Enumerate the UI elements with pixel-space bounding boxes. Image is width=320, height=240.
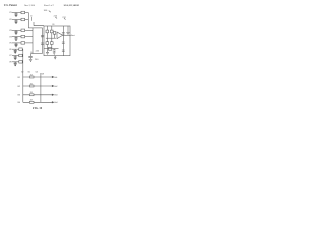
svg-text:V3: V3 [9, 30, 11, 32]
svg-text:US 6,311,145 B1: US 6,311,145 B1 [64, 4, 80, 7]
wire main bus [28, 27, 42, 29]
svg-text:B1: B1 [18, 77, 20, 79]
rung wire Vo4 [23, 101, 52, 103]
input row V7 [9, 54, 23, 59]
svg-text:Vo3: Vo3 [54, 95, 57, 97]
node bus collector [27, 13, 29, 28]
resistor 209 [29, 101, 34, 103]
transistor Q2 [51, 26, 53, 49]
capacitor C31 on inner rail [62, 33, 65, 34]
transistor Q1 [46, 26, 48, 49]
svg-text:B3: B3 [18, 95, 20, 97]
svg-text:206: 206 [30, 83, 33, 85]
ground G5 below box [54, 56, 56, 59]
svg-text:V7: V7 [9, 55, 11, 57]
summing rail [42, 28, 44, 54]
arrow Vo2 [52, 85, 54, 86]
svg-text:V4: V4 [9, 36, 11, 38]
input row V2 [9, 18, 28, 23]
input row V6 [9, 48, 23, 53]
ground G4 [53, 53, 56, 55]
svg-text:Nov. 2, 2004: Nov. 2, 2004 [24, 5, 35, 7]
arrow Vo3 [52, 94, 54, 95]
ground G3 [46, 49, 49, 55]
input row V8 [9, 61, 23, 66]
svg-text:B2: B2 [18, 86, 20, 88]
svg-text:V1: V1 [9, 12, 11, 14]
ground G2 [29, 59, 32, 61]
capacitor C24 [53, 49, 56, 53]
svg-text:Vo2: Vo2 [54, 86, 57, 88]
resistor 204 [29, 76, 34, 78]
rung wire Vo3 [23, 94, 52, 96]
svg-text:V5: V5 [9, 43, 11, 45]
rung wire Vo2 [23, 85, 52, 87]
svg-text:Vout: Vout [71, 34, 75, 37]
input row V1 [9, 11, 28, 16]
wire box bottom rail [44, 48, 59, 50]
wire chain join [46, 37, 56, 39]
input row V5 [9, 42, 33, 47]
svg-text:V6: V6 [9, 49, 11, 51]
svg-text:208: 208 [30, 92, 33, 94]
svg-text:245: 245 [36, 51, 40, 53]
wire riser to box [34, 22, 44, 26]
resistor R20 [48, 47, 51, 50]
svg-text:68: 68 [42, 74, 45, 76]
svg-text:204: 204 [30, 74, 33, 76]
svg-text:100: 100 [44, 10, 48, 12]
capacitor C33 on inner rail [62, 50, 65, 51]
svg-text:Vo4: Vo4 [54, 102, 57, 104]
svg-text:209: 209 [30, 100, 33, 102]
svg-text:Vo1: Vo1 [54, 77, 57, 79]
svg-text:Sheet 1 of 7: Sheet 1 of 7 [44, 4, 54, 7]
svg-text:V8: V8 [9, 62, 11, 64]
svg-text:V2: V2 [9, 19, 11, 21]
rail R inner [62, 26, 64, 56]
svg-text:FIG. 10: FIG. 10 [33, 107, 43, 110]
ladder rail L1 [22, 49, 24, 102]
resistor 206 [29, 85, 34, 87]
svg-text:26: 26 [52, 24, 54, 26]
svg-text:U.S. Patent: U.S. Patent [4, 4, 17, 7]
capacitor C32 on inner rail [62, 42, 65, 43]
wire leader 50 [31, 17, 33, 21]
arrow Vo4 [52, 102, 54, 103]
wire op-amp output [63, 34, 71, 36]
input row V4 [9, 35, 33, 40]
arrow Vo1 [52, 76, 54, 77]
wire rail bottom [31, 53, 43, 55]
svg-text:240: 240 [35, 59, 39, 61]
input row V3 [9, 29, 33, 34]
svg-text:64: 64 [36, 71, 39, 73]
svg-text:B4: B4 [18, 102, 20, 104]
ladder rail L2 [40, 73, 42, 102]
capacitor C22 on rail [41, 43, 44, 44]
capacitor C21 on rail [41, 35, 44, 36]
capacitor C23 [28, 54, 32, 60]
svg-text:60: 60 [28, 71, 31, 73]
rung wire Vo1 [23, 76, 52, 78]
wire mixer rail [32, 28, 34, 54]
wire ground stub [67, 26, 69, 32]
op-amp A1 [57, 32, 63, 39]
transistor Q3 [53, 32, 55, 35]
resistor 208 [29, 94, 34, 96]
svg-text:62: 62 [21, 71, 24, 73]
svg-text:30: 30 [30, 52, 32, 54]
amplifier block U1 box [44, 26, 70, 56]
ground G1 [66, 33, 69, 35]
